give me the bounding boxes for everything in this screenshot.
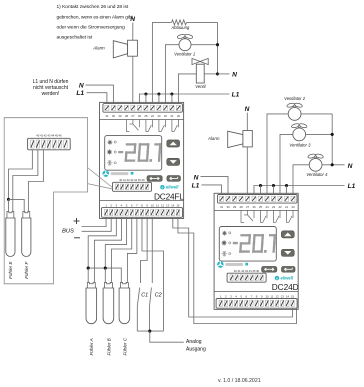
fan Ventilator 1 [177,34,193,51]
wire Ventil to N [204,73,217,75]
terminal strip 40-46 box housing [28,138,71,150]
wire terminal 3 to common dot A [88,217,116,268]
svg-text:N: N [245,106,250,113]
svg-text:Ausgang: Ausgang [186,346,206,352]
svg-text:L1: L1 [232,92,240,99]
svg-text:v. 1.0 / 18.06.2021: v. 1.0 / 18.06.2021 [218,378,261,384]
wire alarm to terminal 27 [132,56,134,103]
wire 42 to Fühler F [28,150,43,212]
svg-text:40 41 42 43 44 45 46: 40 41 42 43 44 45 46 [36,134,62,138]
wire BUS plus to terminal 1 [82,217,107,226]
wire L1 bus D [254,186,345,195]
svg-text:Fühler C: Fühler C [122,337,127,355]
junction L1 terminal 25 [144,92,147,95]
switch common line [137,330,163,332]
wire N to alarm [132,23,134,41]
wire alarm 2 to terminal 27 D [246,147,248,195]
sensor Fühler B [103,283,114,324]
sensor box outline [4,118,87,284]
svg-text:Fühler F: Fühler F [24,261,29,279]
wire N vertical feed [217,22,219,74]
note text [57,4,134,41]
wire Ventil to terminal 20 [178,74,196,104]
wire terminal 7 to Fühler C [127,217,136,282]
svg-text:gebrochen, wenn es einen Alarm: gebrochen, wenn es einen Alarm gibt, [57,14,134,20]
svg-text:Fühler A: Fühler A [89,338,94,355]
wire N to terminal 30 D [201,176,229,194]
svg-text:Abtauung: Abtauung [170,25,190,30]
wire L1 tap terminal 23 D [273,186,275,195]
switch C2 [150,288,152,332]
svg-text:Alarm: Alarm [207,136,220,141]
fan Ventilator 4 [307,153,323,171]
svg-text:werden!: werden! [42,91,60,97]
svg-text:Ventilator 4: Ventilator 4 [306,172,328,177]
svg-text:DC24D: DC24D [272,282,299,292]
svg-text:N: N [79,82,84,89]
svg-text:oder wenn die Stromversorgung: oder wenn die Stromversorgung [57,24,126,30]
svg-text:C1: C1 [141,293,148,299]
wire Ventilator 3 to N vertical [306,133,333,135]
svg-text:Ventil: Ventil [195,84,206,89]
svg-text:L1: L1 [192,182,200,189]
wire L1 tap terminal 25 [145,94,147,104]
wire BUS minus to terminal 2 [82,217,112,231]
wire terminal 4 to Fühler A [94,217,121,282]
wire terminal 6 to Fühler B [112,217,132,282]
wire L1 bus FL [139,94,229,104]
device DC24D [214,193,298,309]
wire to N label [218,73,230,75]
sensor Fühler F [22,212,31,257]
wire Ventilator 1 to terminal 22 [165,45,179,104]
svg-text:ausgeschaltet ist: ausgeschaltet ist [57,35,93,41]
leader line strip 40-46 lower [88,184,113,189]
switch C1 [137,288,139,332]
wire Ventilator 2 to N vertical [301,113,332,115]
wire common to Fühler A [87,268,89,282]
junction N Ventilator 3 [331,133,334,136]
junction L1 terminal 21 D [285,184,288,187]
wire L1 tap terminal 21 D [286,186,288,195]
wire N to alarm 2 [246,113,248,131]
wire L1 tap terminal 23 [158,94,160,104]
svg-text:N: N [232,71,237,78]
wire N vertical right [331,114,333,165]
svg-text:1) Kontakt zwischen 26 und 28: 1) Kontakt zwischen 26 und 28 ist [57,4,129,10]
sensor Fühler A [86,283,97,324]
wire link terminal 14 to DC24D [173,217,293,317]
wire Ventilator 4 to terminal 20 [293,165,309,195]
fan Ventilator 3 [291,123,307,141]
svg-text:N: N [130,16,135,23]
wire 41 to Fühler E [13,150,38,212]
note text L1/N warning [33,79,69,97]
junction N Ventilator 4 [331,163,334,166]
terminal strip 40-46 box screw terminals [31,140,68,148]
junction L1 terminal 25 D [259,184,262,187]
junction common Fühler B [104,267,107,270]
wire L1 tap terminal 25 D [260,186,262,195]
junction L1 terminal 23 [157,92,160,95]
wire N to terminal 30 [86,85,114,104]
wire Ventilator 2 to terminal 24 [267,114,288,195]
junction N Ventil [216,72,219,75]
valve Ventil [192,58,208,83]
resistor Abtauung [152,20,217,25]
wire L1 tap terminal 21 [171,94,173,104]
svg-text:N: N [194,175,199,182]
junction C2 output [148,330,151,333]
svg-text:L1: L1 [76,90,84,97]
wire common to Fühler E [8,199,10,211]
svg-text:BUS: BUS [62,229,74,235]
svg-text:C2: C2 [155,293,162,299]
svg-text:Ventilator 2: Ventilator 2 [284,96,306,101]
svg-text:Alarm: Alarm [92,45,105,50]
wire Abtauung to terminal 24 [151,22,153,103]
svg-text:N: N [348,163,353,170]
wire terminal 5 to common dot B [105,217,126,268]
svg-text:Analog: Analog [186,339,202,345]
sensor Fühler C [119,283,130,324]
svg-text:Fühler E: Fühler E [8,261,13,279]
leader line strip 40-46 upper [88,168,113,188]
junction N Ventilator 1 [216,43,219,46]
wire Ventilator 1 to N [191,44,218,46]
sensor common line [88,268,121,282]
wire switch return to terminal 8 [142,217,164,331]
sensor Fühler E [6,212,15,257]
junction L1 terminal 23 D [272,184,275,187]
wire link terminal 15 to DC24D [178,217,297,323]
label BUS minus [74,237,80,239]
svg-text:Fühler B: Fühler B [106,338,111,355]
wire terminal 10 to switch C2 [151,217,153,283]
label BUS plus [74,218,80,224]
alarm horn 1 [113,40,137,58]
svg-text:DC24FL: DC24FL [154,191,184,201]
label Analog Ausgang [186,339,206,352]
svg-text:Ventilator 3: Ventilator 3 [289,142,311,147]
junction sensor common [7,198,10,201]
wire common to Fühler F [9,199,25,211]
wire Ventilator 3 to terminal 22 [280,134,293,194]
fan Ventilator 2 [286,102,302,120]
wire terminal 9 to switch C1 [141,217,148,283]
svg-text:Ventilator 1: Ventilator 1 [174,52,195,57]
wire analog output stub [150,331,184,342]
wire common to Fühler B [104,268,106,282]
alarm horn 2 [228,131,253,148]
wire 40 to sensor common [9,150,33,200]
wire L1 to terminal 31 [87,93,107,104]
svg-text:L1: L1 [348,183,356,190]
wire L1 to terminal 31 D [202,185,222,195]
junction L1 terminal 21 [170,92,173,95]
wire Ventilator 4 to N [322,164,345,166]
junction common Fühler A [87,267,90,270]
device DC24FL [100,102,184,218]
